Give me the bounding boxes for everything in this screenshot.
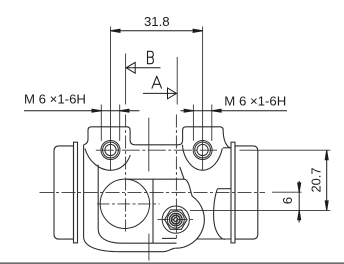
svg-text:6: 6 bbox=[280, 197, 295, 204]
svg-text:M 6 ×1-6H: M 6 ×1-6H bbox=[24, 91, 86, 106]
svg-text:M 6 ×1-6H: M 6 ×1-6H bbox=[224, 93, 286, 108]
svg-text:20.7: 20.7 bbox=[308, 167, 323, 192]
svg-text:31.8: 31.8 bbox=[144, 14, 170, 29]
